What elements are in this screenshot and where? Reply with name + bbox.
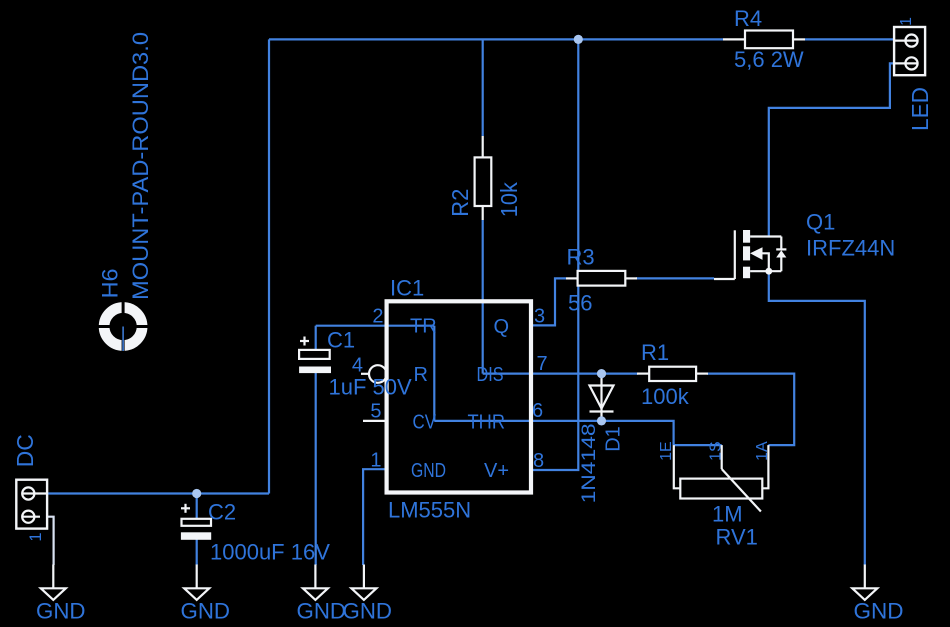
body link	[763, 253, 769, 271]
svg-text:R1: R1	[641, 340, 669, 365]
body diode bottom lead	[780, 258, 782, 272]
svg-text:CV: CV	[413, 412, 437, 434]
wire C1 bottom to GND	[315, 373, 317, 566]
svg-text:Q1: Q1	[806, 210, 835, 235]
svg-text:5,6 2W: 5,6 2W	[734, 47, 804, 72]
svg-text:DC: DC	[12, 434, 38, 467]
svg-text:8: 8	[533, 450, 544, 472]
resistor R3	[566, 271, 637, 286]
IC1 LM555N body	[387, 301, 531, 492]
capacitor C1	[299, 337, 331, 374]
wiper diagonal	[722, 469, 761, 512]
connector LED	[894, 27, 925, 75]
svg-text:IC1: IC1	[390, 276, 424, 301]
svg-text:RV1: RV1	[716, 525, 758, 550]
body channel bar	[743, 246, 750, 260]
svg-text:LM555N: LM555N	[388, 498, 471, 523]
ground symbol IC	[351, 565, 376, 600]
svg-text:6: 6	[532, 400, 543, 422]
wire V+ riser x=578	[533, 39, 578, 470]
wire C2 bottom to GND	[196, 540, 198, 566]
wire TR to THR link inside IC	[433, 326, 435, 421]
gate lead	[714, 278, 735, 280]
gate bar	[734, 230, 736, 279]
wiper lead	[721, 445, 723, 469]
body	[680, 479, 762, 499]
wire top rail from R4 to LED pin1	[805, 38, 895, 40]
svg-text:1: 1	[27, 532, 45, 541]
svg-text:5: 5	[370, 401, 381, 423]
svg-text:GND: GND	[854, 599, 904, 624]
svg-text:IRFZ44N: IRFZ44N	[806, 236, 895, 261]
wire DIS row to R1	[483, 373, 638, 375]
svg-text:1M: 1M	[712, 502, 743, 527]
wire R1 right to RV1 1A	[707, 374, 794, 446]
capacitor C2	[181, 504, 211, 540]
wire pin3 to R3	[533, 278, 566, 325]
svg-text:10k: 10k	[496, 182, 522, 217]
body arrow	[750, 247, 762, 260]
source channel bar	[743, 267, 750, 279]
svg-text:R: R	[414, 364, 428, 386]
svg-text:R4: R4	[734, 6, 762, 31]
svg-text:GND: GND	[411, 460, 446, 482]
svg-text:Q: Q	[494, 316, 510, 338]
svg-text:1uF 50V: 1uF 50V	[329, 375, 412, 400]
transistor Q1 IRFZ44N	[714, 230, 786, 279]
svg-text:GND: GND	[297, 599, 347, 624]
svg-text:MOUNT-PAD-ROUND3.0: MOUNT-PAD-ROUND3.0	[128, 32, 153, 300]
diode D1	[590, 374, 614, 421]
terminal A lead	[762, 445, 768, 488]
drain channel bar	[743, 230, 750, 243]
body diode triangle	[776, 250, 786, 257]
svg-text:H6: H6	[98, 268, 123, 298]
wire RV1 E-S link	[674, 444, 722, 446]
resistor R2	[475, 136, 492, 220]
wire C1 top lead	[315, 326, 317, 351]
wire THR row	[434, 421, 673, 445]
svg-text:V+: V+	[484, 460, 509, 482]
svg-text:1N4148: 1N4148	[578, 423, 600, 503]
svg-text:4: 4	[352, 355, 363, 377]
ground symbol Q1	[852, 565, 877, 600]
svg-text:1000uF 16V: 1000uF 16V	[210, 540, 330, 565]
svg-text:1A: 1A	[754, 441, 771, 461]
terminal E lead	[674, 445, 681, 488]
svg-text:D1: D1	[603, 426, 625, 452]
pin 5 stub (CV, unconnected)	[363, 420, 385, 422]
svg-text:GND: GND	[181, 599, 231, 624]
junction dot D1 cathode	[597, 416, 606, 425]
body diode cathode bar	[776, 248, 786, 250]
wire C2 top lead	[196, 494, 198, 520]
wire DC pin1 row	[46, 492, 269, 494]
resistor R4	[723, 31, 805, 49]
wire TR row from C1	[316, 325, 435, 327]
wire IC pin1 to GND	[363, 469, 385, 565]
ground symbol C2	[184, 565, 209, 600]
source lead	[750, 270, 781, 272]
potentiometer RV1	[674, 445, 769, 511]
body diode top lead	[780, 237, 782, 250]
svg-text:TR: TR	[410, 316, 437, 338]
wire Q1 source to GND	[769, 271, 865, 565]
svg-text:1: 1	[370, 450, 381, 472]
wire left riser VCC	[268, 39, 270, 493]
wire LED pin2 to Q1 drain	[769, 63, 894, 237]
junction dot top rail	[574, 35, 583, 44]
svg-text:LED: LED	[907, 87, 933, 131]
svg-text:C2: C2	[208, 500, 236, 525]
svg-text:C1: C1	[327, 328, 355, 353]
connector DC	[16, 480, 47, 529]
svg-text:THR: THR	[468, 412, 506, 434]
svg-text:1S: 1S	[708, 441, 725, 461]
svg-text:56: 56	[568, 291, 592, 316]
svg-text:1: 1	[898, 17, 915, 26]
svg-text:DIS: DIS	[477, 364, 504, 386]
svg-text:R2: R2	[447, 189, 473, 217]
svg-text:100k: 100k	[641, 384, 690, 409]
source junction dot	[765, 268, 772, 275]
resistor R1	[637, 367, 708, 381]
junction dot D1 anode	[597, 369, 606, 378]
svg-text:2: 2	[372, 306, 383, 328]
svg-text:1E: 1E	[658, 441, 675, 461]
wire R2 bottom to DIS row	[482, 220, 484, 374]
svg-text:GND: GND	[36, 599, 86, 624]
wire DC pin2 to GND	[40, 517, 54, 565]
ground symbol DC	[41, 565, 66, 600]
wire top rail from left riser to R4	[269, 38, 723, 40]
drain lead	[750, 235, 781, 237]
mount pad H6	[96, 299, 150, 354]
wire R2 top lead	[482, 39, 484, 136]
wire R3 to gate	[636, 277, 714, 279]
svg-text:3: 3	[534, 306, 545, 328]
pin 4 stub and inversion bubble	[361, 373, 369, 375]
junction dot DC row	[192, 489, 201, 498]
svg-text:GND: GND	[343, 599, 393, 624]
svg-text:R3: R3	[567, 245, 595, 270]
ground symbol C1	[303, 565, 328, 600]
svg-text:7: 7	[537, 353, 548, 375]
